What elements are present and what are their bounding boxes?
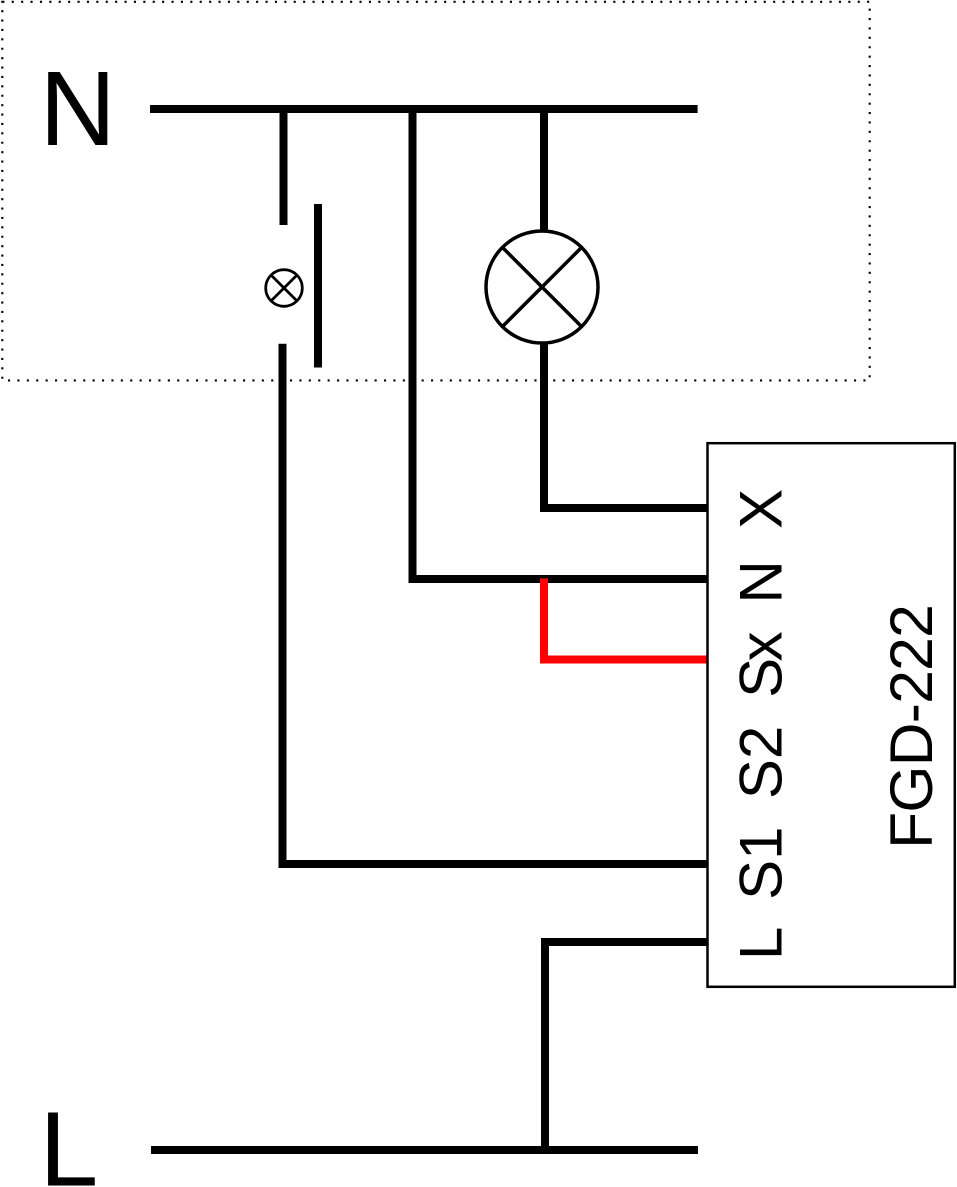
wire (red): N wire tap to Sx terminal: [544, 578, 708, 659]
dotted boundary box (wall / fixture zone): [2, 2, 869, 381]
svg-text:L: L: [727, 927, 794, 960]
svg-text:FGD-222: FGD-222: [877, 605, 945, 849]
wire: N bus drop to lamp: [540, 105, 548, 287]
dimmer module FGD-222 body: [708, 443, 955, 987]
svg-text:X: X: [727, 489, 794, 529]
wire: N bus horizontal: [150, 105, 698, 113]
svg-text:Sx: Sx: [727, 631, 794, 698]
wire: L terminal to L bus: [545, 942, 708, 1150]
svg-text:S1: S1: [727, 827, 794, 900]
svg-text:S2: S2: [727, 726, 794, 799]
wire: N bus to switch (upper stub): [280, 105, 288, 225]
wire: N bus drop to N terminal: [413, 105, 709, 579]
svg-text:N: N: [40, 50, 116, 168]
wire: lamp down to X terminal: [544, 287, 708, 508]
svg-text:L: L: [39, 1091, 98, 1187]
wire: L bus horizontal: [151, 1146, 698, 1154]
switch actuator bar S: [314, 204, 322, 368]
wire: switch lower stub down to S1 terminal: [283, 344, 709, 864]
svg-text:N: N: [727, 560, 794, 603]
push-button indicator (small circle with X cross): [266, 270, 303, 307]
lamp E1 (circle with X cross): [486, 231, 598, 343]
